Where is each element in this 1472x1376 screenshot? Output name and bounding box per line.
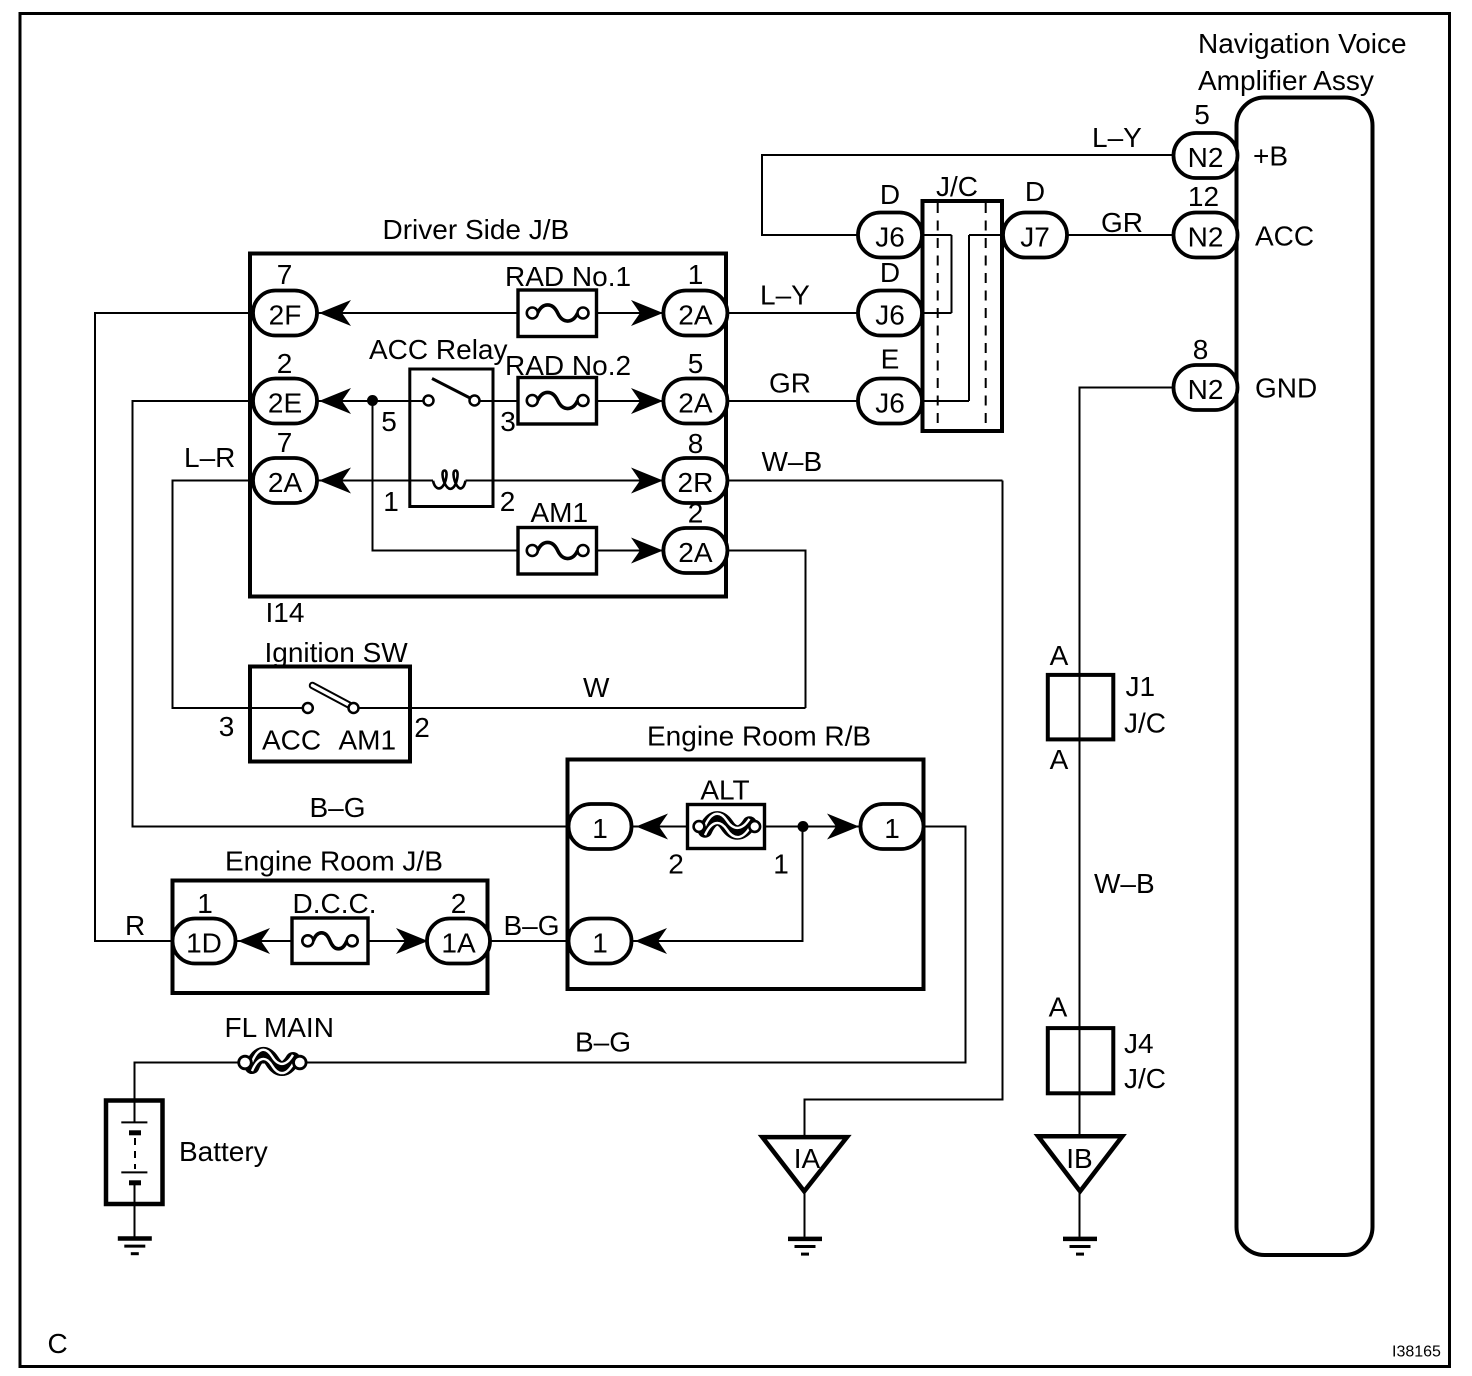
svg-text:R: R [125, 910, 145, 941]
svg-text:7: 7 [277, 427, 293, 458]
svg-text:1: 1 [592, 813, 608, 844]
svg-text:1A: 1A [441, 928, 476, 959]
svg-text:J/C: J/C [1124, 1063, 1166, 1094]
svg-text:12: 12 [1188, 181, 1219, 212]
svg-text:I14: I14 [266, 597, 305, 628]
svg-text:J4: J4 [1124, 1028, 1154, 1059]
svg-text:J6: J6 [875, 222, 905, 253]
svg-text:1: 1 [383, 486, 399, 517]
svg-text:J6: J6 [875, 388, 905, 419]
svg-text:8: 8 [1193, 334, 1209, 365]
svg-text:W: W [583, 672, 610, 703]
svg-text:2E: 2E [268, 388, 302, 419]
svg-text:7: 7 [277, 259, 293, 290]
svg-text:AM1: AM1 [531, 497, 589, 528]
svg-text:1: 1 [688, 259, 704, 290]
svg-text:RAD No.2: RAD No.2 [505, 350, 631, 381]
svg-text:I38165: I38165 [1392, 1344, 1441, 1361]
svg-text:3: 3 [219, 711, 235, 742]
svg-text:L–Y: L–Y [760, 280, 810, 311]
svg-text:2F: 2F [269, 300, 302, 331]
svg-text:FL MAIN: FL MAIN [225, 1012, 334, 1043]
svg-text:B–G: B–G [575, 1027, 631, 1058]
svg-text:8: 8 [688, 428, 704, 459]
svg-text:2A: 2A [678, 537, 713, 568]
svg-text:2: 2 [668, 849, 684, 880]
svg-text:W–B: W–B [762, 446, 823, 477]
svg-text:1: 1 [197, 888, 213, 919]
svg-text:W–B: W–B [1094, 868, 1155, 899]
svg-text:Driver Side J/B: Driver Side J/B [383, 214, 570, 245]
svg-text:A: A [1050, 640, 1069, 671]
svg-text:N2: N2 [1188, 374, 1224, 405]
svg-text:IA: IA [794, 1143, 821, 1174]
svg-text:1: 1 [884, 813, 900, 844]
svg-text:2: 2 [451, 888, 467, 919]
svg-text:J1: J1 [1126, 671, 1156, 702]
svg-text:N2: N2 [1188, 222, 1224, 253]
svg-text:2: 2 [414, 712, 430, 743]
svg-text:1D: 1D [186, 928, 222, 959]
svg-text:2A: 2A [678, 300, 713, 331]
svg-text:A: A [1049, 992, 1068, 1023]
svg-text:GR: GR [1101, 207, 1143, 238]
svg-text:J7: J7 [1020, 222, 1050, 253]
svg-text:D.C.C.: D.C.C. [293, 888, 377, 919]
svg-text:ACC: ACC [262, 725, 321, 756]
svg-text:2: 2 [277, 348, 293, 379]
svg-text:2: 2 [688, 498, 704, 529]
svg-text:5: 5 [1194, 99, 1210, 130]
svg-text:D: D [880, 257, 900, 288]
svg-text:Ignition SW: Ignition SW [265, 637, 409, 668]
svg-text:B–G: B–G [310, 792, 366, 823]
svg-text:Navigation Voice: Navigation Voice [1198, 28, 1407, 59]
svg-text:5: 5 [381, 406, 397, 437]
svg-text:L–Y: L–Y [1092, 122, 1142, 153]
svg-text:RAD No.1: RAD No.1 [505, 261, 631, 292]
svg-text:GND: GND [1255, 373, 1317, 404]
svg-text:C: C [48, 1328, 68, 1359]
svg-text:GR: GR [769, 368, 811, 399]
svg-text:D: D [1025, 176, 1045, 207]
svg-text:1: 1 [592, 928, 608, 959]
svg-text:N2: N2 [1188, 142, 1224, 173]
svg-text:2A: 2A [268, 467, 303, 498]
svg-text:D: D [880, 179, 900, 210]
svg-text:5: 5 [688, 348, 704, 379]
svg-text:J/C: J/C [936, 171, 978, 202]
svg-text:Engine Room R/B: Engine Room R/B [647, 721, 871, 752]
svg-text:ALT: ALT [700, 775, 749, 806]
svg-text:B–G: B–G [504, 910, 560, 941]
svg-text:3: 3 [500, 406, 516, 437]
svg-text:AM1: AM1 [339, 725, 397, 756]
svg-text:IB: IB [1066, 1143, 1092, 1174]
svg-text:ACC Relay: ACC Relay [369, 334, 507, 365]
svg-text:E: E [881, 344, 900, 375]
svg-text:+B: +B [1253, 141, 1288, 172]
svg-text:J/C: J/C [1124, 708, 1166, 739]
svg-text:L–R: L–R [184, 442, 235, 473]
svg-text:2R: 2R [678, 467, 714, 498]
svg-text:2A: 2A [678, 388, 713, 419]
svg-text:A: A [1050, 744, 1069, 775]
svg-text:Battery: Battery [179, 1136, 268, 1167]
svg-text:2: 2 [500, 486, 516, 517]
svg-text:Engine Room J/B: Engine Room J/B [225, 846, 443, 877]
svg-text:Amplifier Assy: Amplifier Assy [1198, 65, 1374, 96]
svg-text:1: 1 [773, 849, 789, 880]
svg-text:ACC: ACC [1255, 221, 1314, 252]
svg-text:J6: J6 [875, 300, 905, 331]
